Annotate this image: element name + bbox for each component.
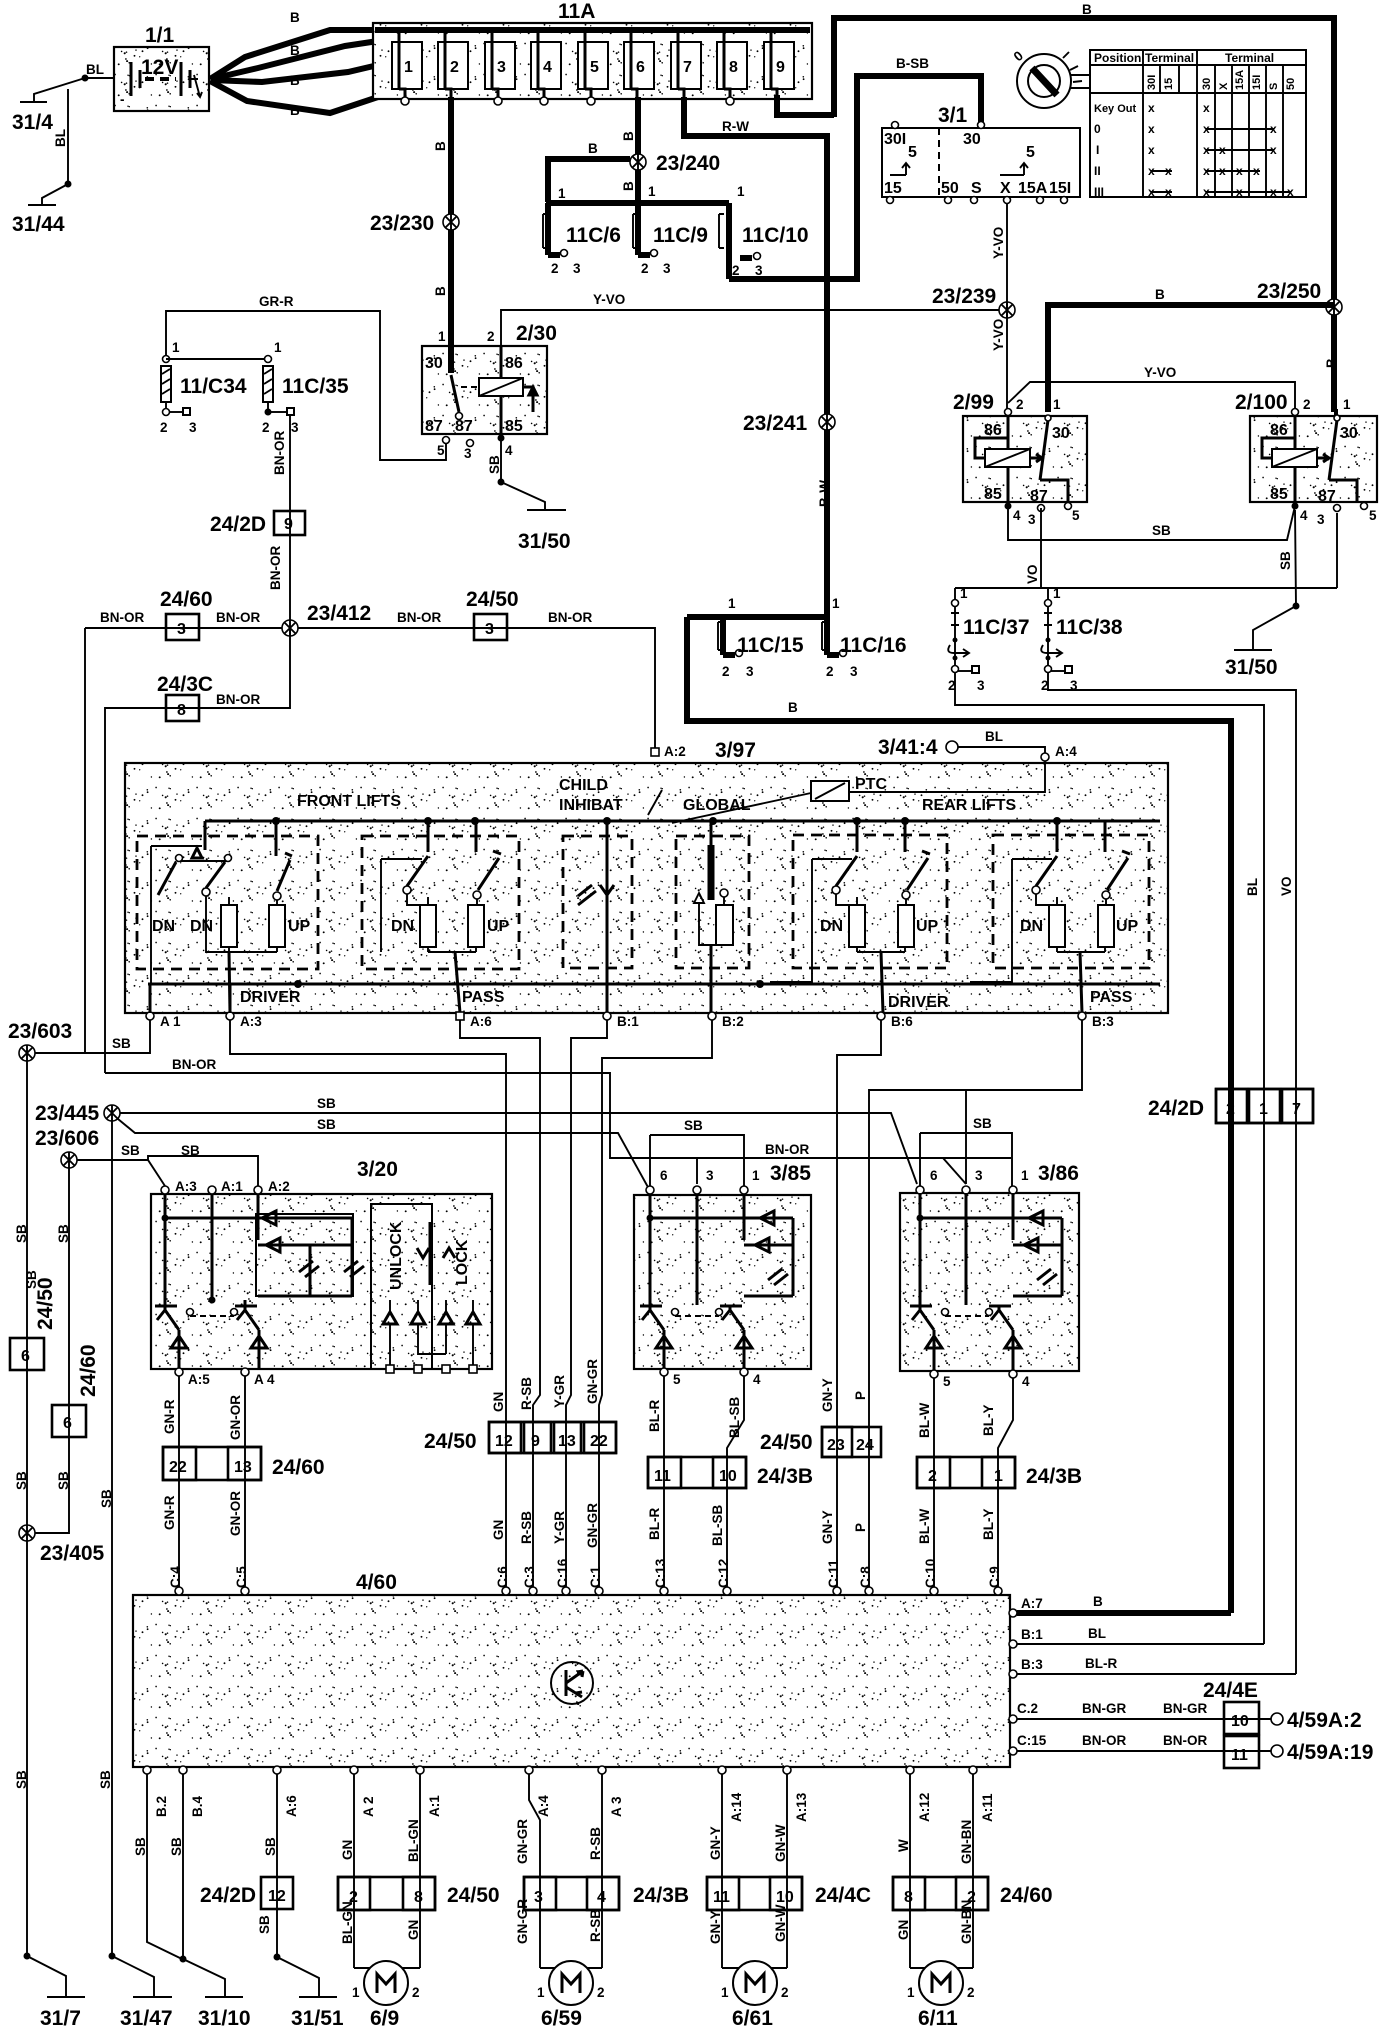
svg-text:Y-GR: Y-GR <box>552 1375 567 1408</box>
wire SB 23/405 to 31/7 <box>14 1541 29 1956</box>
svg-text:11: 11 <box>1231 1747 1248 1764</box>
svg-text:BN-OR: BN-OR <box>216 610 260 625</box>
wire VO 11C/38 to right vertical <box>1048 672 1296 1674</box>
svg-text:3: 3 <box>663 261 671 276</box>
svg-text:3/41:4: 3/41:4 <box>878 736 938 759</box>
svg-text:2: 2 <box>160 420 168 435</box>
svg-text:6: 6 <box>930 1168 938 1183</box>
svg-text:B: B <box>290 43 300 58</box>
svg-text:23/230: 23/230 <box>370 212 434 235</box>
PTC resistor <box>672 761 1045 823</box>
svg-text:3: 3 <box>485 621 494 638</box>
svg-text:BL-SB: BL-SB <box>710 1505 725 1546</box>
wire B to 11C/6 <box>548 141 630 202</box>
svg-text:BL-GN: BL-GN <box>406 1819 421 1862</box>
svg-text:1: 1 <box>960 586 968 601</box>
wire BL-Y to C:9 <box>981 1509 996 1541</box>
svg-text:BN-OR: BN-OR <box>100 610 144 625</box>
wire GN A:2 <box>340 1774 355 1968</box>
node 4 3/85 <box>740 1368 761 1387</box>
fuse 4 <box>531 30 561 105</box>
svg-text:2: 2 <box>487 329 495 344</box>
wire R-SB A:3 <box>588 1774 603 1968</box>
wire Y-VO X terminal to 2/99 <box>991 203 1007 412</box>
wire SB 23/606 to 3/20 <box>77 1143 258 1186</box>
svg-text:GN: GN <box>340 1840 355 1860</box>
svg-text:2: 2 <box>1226 1101 1235 1118</box>
svg-text:4: 4 <box>505 443 513 458</box>
svg-text:III: III <box>1094 185 1104 199</box>
ignition position table <box>1090 50 1306 199</box>
svg-text:BL: BL <box>985 729 1003 744</box>
svg-text:X: X <box>1218 82 1230 90</box>
svg-text:24/50: 24/50 <box>447 1884 500 1907</box>
motor 6/59 <box>537 1961 605 2030</box>
svg-text:30I: 30I <box>884 131 906 148</box>
splice 23/240 <box>630 152 720 175</box>
svg-text:UP: UP <box>288 918 311 935</box>
wire SB 2/30 to ground <box>487 438 545 509</box>
node C:2 wire BN-GR <box>1009 1701 1271 1723</box>
wire GR-R <box>166 294 446 460</box>
svg-text:5: 5 <box>1369 508 1377 523</box>
svg-text:x: x <box>1219 143 1226 157</box>
svg-text:24/3B: 24/3B <box>633 1884 689 1907</box>
svg-text:1: 1 <box>1053 397 1061 412</box>
svg-text:7: 7 <box>683 59 692 76</box>
svg-text:12: 12 <box>495 1433 513 1450</box>
svg-text:BL-Y: BL-Y <box>981 1405 996 1437</box>
svg-text:8: 8 <box>177 702 186 719</box>
svg-text:x: x <box>1270 143 1277 157</box>
node B:1 wire BL <box>1009 1626 1264 1648</box>
svg-text:C.2: C.2 <box>1017 1701 1038 1716</box>
svg-text:GLOBAL: GLOBAL <box>683 797 751 814</box>
svg-text:24/60: 24/60 <box>160 588 213 611</box>
splice 23/230 <box>370 212 459 235</box>
svg-text:DRIVER: DRIVER <box>240 989 301 1006</box>
wire B-SB from 3/1 to 11C/10 <box>729 56 981 279</box>
fuse 6 <box>624 30 654 97</box>
wire R-SB to motor 6/59 <box>540 1909 603 1968</box>
svg-text:B: B <box>788 700 798 715</box>
svg-text:SB: SB <box>1152 523 1171 538</box>
svg-text:15A: 15A <box>1234 70 1246 90</box>
svg-text:2: 2 <box>732 263 740 278</box>
svg-text:24/4C: 24/4C <box>815 1884 871 1907</box>
svg-text:UP: UP <box>487 918 510 935</box>
svg-text:B-W: B-W <box>817 480 832 507</box>
svg-text:Y-VO: Y-VO <box>593 292 625 307</box>
connector 24/50 pin 3 <box>466 588 519 640</box>
svg-text:23/412: 23/412 <box>307 602 371 625</box>
svg-text:11C/10: 11C/10 <box>742 224 809 247</box>
switch unit rear driver <box>770 822 947 1013</box>
svg-text:B: B <box>621 181 636 191</box>
svg-text:x: x <box>1203 101 1210 115</box>
wire B 23/250 to 2/100 <box>1324 315 1339 412</box>
svg-text:B: B <box>1093 1594 1103 1609</box>
svg-text:x: x <box>1203 164 1210 178</box>
svg-text:24/50: 24/50 <box>760 1431 813 1454</box>
wire GN-GR B:2 to C:1 <box>599 1020 712 1590</box>
svg-text:31/7: 31/7 <box>40 2007 81 2030</box>
svg-text:B: B <box>290 10 300 25</box>
wire B to relay 2/99 <box>1045 287 1334 412</box>
node A:4 3/20 <box>241 1368 275 1387</box>
svg-text:4: 4 <box>543 59 552 76</box>
svg-text:B:3: B:3 <box>1021 1657 1043 1672</box>
svg-text:1: 1 <box>352 1985 360 2000</box>
wire SB 24/60-6 to 23/405 <box>56 1471 71 1490</box>
svg-text:24/50: 24/50 <box>466 588 519 611</box>
wire VO 2/99 pin3 down <box>1025 508 1041 588</box>
svg-text:1: 1 <box>648 184 656 199</box>
wire GN-W to motor 6/61 <box>722 1904 788 1968</box>
node C:8 <box>858 1566 873 1595</box>
wire GN-BN A:11 <box>959 1774 974 1968</box>
wire W A:12 <box>896 1774 911 1968</box>
svg-text:4/59A:19: 4/59A:19 <box>1287 1741 1373 1764</box>
node A:12 bottom <box>906 1766 932 1822</box>
svg-text:6: 6 <box>63 1415 72 1432</box>
svg-text:11: 11 <box>713 1889 730 1906</box>
svg-text:24/60: 24/60 <box>272 1456 325 1479</box>
svg-text:86: 86 <box>1270 422 1288 439</box>
svg-text:x: x <box>1253 164 1260 178</box>
svg-text:C:4: C:4 <box>168 1566 183 1588</box>
svg-text:4/59A:2: 4/59A:2 <box>1287 1709 1362 1732</box>
svg-text:P: P <box>853 1391 868 1400</box>
svg-text:A:14: A:14 <box>729 1792 744 1822</box>
relay 2/100 <box>1235 391 1377 527</box>
connector 11C/6 <box>543 203 621 276</box>
node 5 3/85 <box>660 1368 681 1387</box>
wire GN-Y to motor 6/61 <box>708 1910 723 1944</box>
svg-text:A:13: A:13 <box>794 1792 809 1822</box>
svg-text:A 3: A 3 <box>609 1796 624 1817</box>
svg-text:24/3B: 24/3B <box>1026 1465 1082 1488</box>
connector 24/4C pins 11 10 <box>707 1877 871 1910</box>
svg-text:S: S <box>971 180 982 197</box>
svg-text:30: 30 <box>963 131 981 148</box>
svg-text:23/239: 23/239 <box>932 285 996 308</box>
wire BL-Y 3/86 to 24/3B <box>981 1378 1013 1590</box>
node C:9 <box>987 1566 1002 1595</box>
switch unit child inhibit <box>563 821 632 1013</box>
svg-text:SB: SB <box>14 1770 29 1789</box>
svg-text:12V: 12V <box>141 56 178 79</box>
battery 1/1 <box>114 24 209 111</box>
svg-text:4: 4 <box>753 1372 761 1387</box>
node A:3 <box>226 984 262 1029</box>
node A:6 <box>456 1012 492 1029</box>
svg-text:24/3B: 24/3B <box>757 1465 813 1488</box>
svg-text:24/4E: 24/4E <box>1203 1679 1258 1702</box>
svg-text:4: 4 <box>1022 1374 1030 1389</box>
svg-text:6/59: 6/59 <box>541 2007 582 2030</box>
node A:1 bottom <box>416 1766 442 1817</box>
svg-text:85: 85 <box>505 418 523 435</box>
svg-text:23/405: 23/405 <box>40 1542 105 1565</box>
svg-text:3/20: 3/20 <box>357 1158 398 1181</box>
svg-text:87: 87 <box>1030 488 1048 505</box>
svg-text:24/50: 24/50 <box>424 1430 477 1453</box>
svg-text:23/240: 23/240 <box>656 152 720 175</box>
svg-text:2: 2 <box>450 59 459 76</box>
node B:3 <box>1078 1012 1114 1029</box>
connector 24/60 pins 8 2 <box>893 1877 1053 1910</box>
svg-text:x: x <box>1287 185 1294 199</box>
svg-text:B: B <box>433 141 448 151</box>
wire SB line2 <box>118 1117 703 1189</box>
svg-text:1: 1 <box>172 340 180 355</box>
wire R-SB A:6 to C:3 <box>460 1020 540 1590</box>
svg-text:BL-R: BL-R <box>1085 1656 1117 1671</box>
svg-text:-: - <box>120 92 125 107</box>
connector 24/50 pins 2 8 <box>338 1877 500 1910</box>
svg-text:1: 1 <box>438 329 446 344</box>
wire label R-SB column <box>519 1377 534 1544</box>
wire label GN column <box>491 1392 506 1540</box>
svg-text:Y-GR: Y-GR <box>552 1511 567 1544</box>
svg-text:31/44: 31/44 <box>12 213 65 236</box>
wire BN-OR 24/2D to 23/412 <box>268 546 283 590</box>
motor 6/11 <box>907 1961 975 2030</box>
node C:1 <box>588 1566 603 1595</box>
relay 2/99 <box>953 391 1087 527</box>
svg-text:12: 12 <box>268 1888 286 1905</box>
wire GN-GR to motor 6/59 <box>515 1899 530 1944</box>
svg-text:SB: SB <box>56 1224 71 1243</box>
svg-text:B:3: B:3 <box>1092 1014 1114 1029</box>
splice 23/606 <box>35 1127 99 1168</box>
wire SB 24/60-3 left leg <box>84 628 86 1053</box>
wire SB A:6 to 24/2D <box>263 1774 278 1957</box>
fuse 11/C34 <box>160 340 247 435</box>
svg-text:11C/16: 11C/16 <box>840 634 907 657</box>
wire BL-R 3/85 to 24/3B <box>647 1376 664 1590</box>
control module 4/60 <box>133 1571 1010 1767</box>
svg-text:R-SB: R-SB <box>588 1909 603 1942</box>
wire bracket pins1 11C connectors <box>546 184 745 203</box>
svg-text:FRONT LIFTS: FRONT LIFTS <box>297 793 401 810</box>
connector 24/3B pins 11 10 <box>648 1457 813 1488</box>
svg-text:2: 2 <box>597 1985 605 2000</box>
node A:14 bottom <box>718 1766 744 1822</box>
wire BL battery negative <box>34 62 114 101</box>
svg-text:1: 1 <box>907 1985 915 2000</box>
connector 11C/9 <box>633 203 708 276</box>
fuse 9 <box>764 30 794 97</box>
svg-text:22: 22 <box>590 1433 608 1450</box>
svg-text:GN: GN <box>896 1920 911 1940</box>
svg-text:5: 5 <box>908 144 917 161</box>
svg-text:3: 3 <box>706 1168 714 1183</box>
node A:2 bottom <box>350 1766 376 1817</box>
svg-text:3: 3 <box>1028 512 1036 527</box>
splice 23/250 <box>1257 280 1342 315</box>
svg-text:GN-Y: GN-Y <box>708 1826 723 1860</box>
wire SB 2/100 pin4 down to 31/50 <box>1253 510 1300 649</box>
wire SB 24/2D-12 to 31/51 <box>257 1915 319 1996</box>
svg-text:GN-BN: GN-BN <box>959 1900 974 1944</box>
svg-text:30: 30 <box>425 355 443 372</box>
svg-text:BL-W: BL-W <box>917 1403 932 1438</box>
svg-text:3: 3 <box>1317 512 1325 527</box>
svg-text:BN-OR: BN-OR <box>216 692 260 707</box>
svg-text:31/47: 31/47 <box>120 2007 173 2030</box>
svg-text:A:5: A:5 <box>188 1372 210 1387</box>
connector 24/2D pins 2 1 7 <box>1148 1089 1313 1123</box>
svg-text:X: X <box>1000 180 1011 197</box>
svg-text:1: 1 <box>832 596 840 611</box>
svg-text:B: B <box>621 131 636 141</box>
wire Y-VO 2/30 to 23/239 <box>501 292 1007 346</box>
node C:10 <box>923 1559 938 1595</box>
svg-text:C:16: C:16 <box>555 1558 570 1588</box>
svg-text:1: 1 <box>537 1985 545 2000</box>
svg-text:x: x <box>1236 164 1243 178</box>
svg-text:10: 10 <box>776 1889 794 1906</box>
wire label GN-GR column <box>585 1359 600 1548</box>
wire GN-Y B:6 to C:11 <box>837 1020 881 1590</box>
wire B fuse2 down <box>433 97 451 352</box>
svg-text:1: 1 <box>558 186 566 201</box>
connector 24/2D pin 9 <box>210 511 305 536</box>
svg-text:GN-OR: GN-OR <box>228 1395 243 1440</box>
wire SB B:2 to 31/10 <box>133 1774 182 1959</box>
node B:2 bottom <box>143 1766 169 1817</box>
node A:4 <box>1041 744 1077 761</box>
fuse 1 <box>392 30 422 105</box>
svg-text:1: 1 <box>1259 1101 1268 1118</box>
svg-text:R-SB: R-SB <box>519 1511 534 1544</box>
svg-text:GN-W: GN-W <box>773 1904 788 1942</box>
svg-text:5: 5 <box>673 1372 681 1387</box>
wire BL-GN A:1 <box>406 1774 421 1968</box>
wire SB 23/445 down to 31/47 <box>24 1121 114 1956</box>
node A:6 bottom <box>273 1766 299 1817</box>
wire GN-OR A:4 to 24/60 <box>228 1376 245 1590</box>
svg-text:11C/9: 11C/9 <box>653 224 708 247</box>
svg-text:BN-OR: BN-OR <box>272 431 287 475</box>
svg-text:1: 1 <box>1053 586 1061 601</box>
svg-text:A:11: A:11 <box>980 1793 995 1822</box>
svg-text:B:6: B:6 <box>891 1014 913 1029</box>
svg-text:2: 2 <box>1016 397 1024 412</box>
svg-text:30: 30 <box>1340 425 1358 442</box>
svg-text:UNLOCK: UNLOCK <box>388 1221 405 1290</box>
svg-text:13: 13 <box>234 1459 252 1476</box>
svg-text:10: 10 <box>719 1468 737 1485</box>
node 5 3/86 <box>930 1370 951 1389</box>
svg-text:11C/6: 11C/6 <box>566 224 621 247</box>
connector 24/50 pin 6 <box>10 1277 57 1370</box>
svg-text:1: 1 <box>752 1168 760 1183</box>
svg-text:31/4: 31/4 <box>12 111 53 134</box>
connector 11C/15 <box>718 596 804 679</box>
svg-text:Y-VO: Y-VO <box>1144 365 1176 380</box>
node A:13 bottom <box>783 1766 809 1822</box>
svg-text:2: 2 <box>722 664 730 679</box>
splice 23/445 <box>35 1102 120 1125</box>
connector 24/3B pins 2 1 <box>917 1457 1082 1488</box>
svg-text:2: 2 <box>641 261 649 276</box>
svg-text:R-SB: R-SB <box>519 1377 534 1410</box>
wire R-W fuse7 <box>684 97 824 136</box>
svg-text:5: 5 <box>943 1374 951 1389</box>
node A:1 <box>146 984 181 1029</box>
splice 23/405 <box>19 1525 105 1565</box>
svg-text:BL: BL <box>1245 878 1260 896</box>
svg-text:W: W <box>896 1839 911 1852</box>
wire B fuse6 down <box>621 97 638 202</box>
svg-text:8: 8 <box>904 1889 913 1906</box>
terminal 4/59A:2 <box>1163 1701 1362 1732</box>
splice 23/603 <box>8 1020 72 1061</box>
motor 6/9 <box>352 1961 420 2030</box>
svg-text:8: 8 <box>729 59 738 76</box>
svg-text:85: 85 <box>1270 486 1288 503</box>
svg-text:3: 3 <box>977 678 985 693</box>
svg-text:2/100: 2/100 <box>1235 391 1288 414</box>
svg-text:BN-OR: BN-OR <box>172 1057 216 1072</box>
svg-text:Terminal: Terminal <box>1225 51 1274 65</box>
wire SB relay grounds link <box>1008 506 1295 540</box>
svg-text:6: 6 <box>660 1168 668 1183</box>
node B:6 <box>877 1012 913 1029</box>
node A:3 bottom <box>598 1766 624 1817</box>
svg-text:2/99: 2/99 <box>953 391 994 414</box>
svg-text:SB: SB <box>121 1143 140 1158</box>
svg-text:DN: DN <box>391 918 414 935</box>
svg-text:2: 2 <box>826 664 834 679</box>
svg-text:23/603: 23/603 <box>8 1020 72 1043</box>
svg-text:B:1: B:1 <box>1021 1627 1043 1642</box>
node A:5 3/20 <box>175 1368 210 1387</box>
wire GN-BN to motor 6/11 <box>910 1900 974 1968</box>
svg-text:Terminal: Terminal <box>1145 51 1194 65</box>
ground 31/51 <box>291 1997 344 2030</box>
ground 31/10 <box>198 1997 251 2030</box>
wire BN-OR 11C/35 to 24/2D <box>272 415 290 621</box>
svg-text:A 1: A 1 <box>160 1014 181 1029</box>
svg-text:3: 3 <box>534 1889 543 1906</box>
svg-text:BN-GR: BN-GR <box>1163 1701 1207 1716</box>
svg-text:15: 15 <box>1163 78 1175 90</box>
wire BL-SB 3/85 to 24/3B <box>727 1376 744 1590</box>
wire label GN-Y column <box>820 1378 835 1544</box>
svg-text:B.4: B.4 <box>190 1796 205 1818</box>
svg-text:SB: SB <box>56 1471 71 1490</box>
svg-text:UP: UP <box>1116 918 1139 935</box>
svg-text:4: 4 <box>1300 508 1308 523</box>
svg-text:SB: SB <box>257 1915 272 1934</box>
svg-text:A:1: A:1 <box>221 1179 243 1194</box>
svg-text:1: 1 <box>721 1985 729 2000</box>
svg-text:5: 5 <box>1072 508 1080 523</box>
svg-text:9: 9 <box>531 1433 540 1450</box>
svg-text:24/50: 24/50 <box>34 1277 57 1330</box>
svg-text:GN-R: GN-R <box>162 1399 177 1434</box>
wire B top bus to 23/250 <box>831 2 1334 300</box>
ground 31/47 <box>120 1997 173 2030</box>
wire label Y-GR column <box>552 1375 567 1544</box>
wire SB 31/7 leg <box>24 1953 67 1997</box>
svg-text:Key Out: Key Out <box>1094 103 1137 115</box>
svg-text:87: 87 <box>1318 488 1336 505</box>
